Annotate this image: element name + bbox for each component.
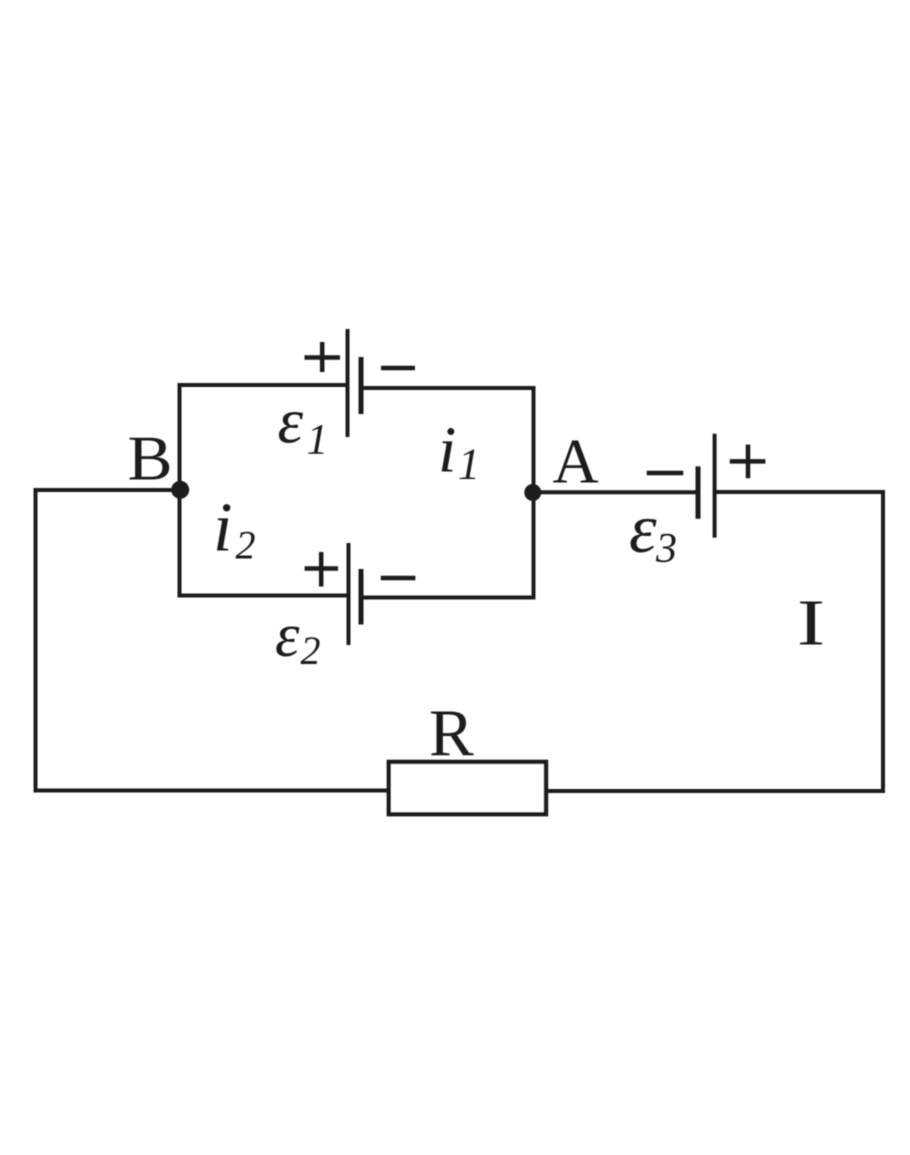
plus sign of E3 (730, 445, 766, 479)
battery E2 (cell, bottom branch) (349, 543, 362, 645)
wire outer left vertical (34, 488, 38, 793)
svg-text:i: i (438, 414, 456, 487)
label epsilon1 (278, 386, 329, 464)
wire top branch left of E1 (178, 383, 348, 387)
svg-text:ε: ε (278, 386, 304, 458)
svg-text:I: I (797, 586, 825, 659)
plus sign of E2 (305, 552, 338, 587)
label epsilon3 (629, 491, 677, 572)
wire outer right vertical (881, 490, 885, 793)
label i2 (current bottom branch) (213, 490, 256, 568)
label epsilon2 (275, 602, 321, 673)
wire node A to battery E3 (531, 490, 698, 494)
plus sign of E1 (305, 342, 341, 372)
node B (junction dot) (171, 481, 189, 499)
wire bottom branch left of E2 (178, 594, 349, 598)
wire bottom branch right of E2 (361, 596, 536, 600)
minus sign of E2 (381, 576, 416, 581)
resistor R (box) (389, 762, 546, 814)
svg-text:A: A (553, 426, 599, 497)
svg-text:1: 1 (307, 417, 329, 464)
svg-text:R: R (429, 696, 474, 770)
svg-text:1: 1 (458, 440, 480, 489)
minus sign of E1 (381, 366, 415, 371)
svg-text:2: 2 (236, 523, 256, 568)
svg-text:i: i (213, 490, 232, 567)
svg-text:B: B (128, 423, 173, 494)
minus sign of E3 (647, 471, 684, 476)
wire top branch right of E1 (361, 386, 536, 390)
wire outer bottom left segment (34, 789, 392, 793)
svg-text:ε: ε (629, 491, 657, 568)
label i1 (current top branch) (438, 414, 480, 489)
wire inner right vertical (A branch) (532, 386, 536, 600)
node A (junction dot) (524, 484, 541, 501)
battery E3 (cell, right branch) (698, 434, 715, 538)
svg-text:ε: ε (275, 602, 300, 670)
wire outer bottom right segment (544, 789, 885, 793)
battery E1 (cell, top branch) (348, 329, 362, 437)
svg-text:2: 2 (301, 628, 321, 673)
wire battery E3 to right corner (716, 490, 885, 494)
wire inner left vertical (B branch) (178, 383, 182, 598)
wire B to outer left (34, 488, 183, 492)
svg-text:3: 3 (655, 526, 677, 572)
